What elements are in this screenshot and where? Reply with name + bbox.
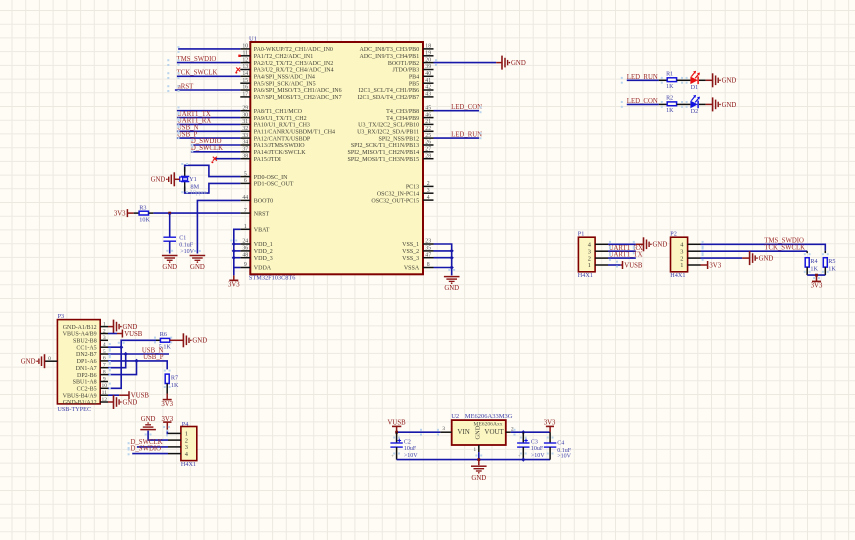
svg-text:33: 33 bbox=[242, 133, 248, 139]
resistor R3 reference bbox=[139, 205, 146, 212]
svg-text:ADC_IN9/T3_CH4/PB1: ADC_IN9/T3_CH4/PB1 bbox=[360, 54, 420, 60]
svg-text:JTDO/PB3: JTDO/PB3 bbox=[393, 68, 420, 74]
svg-text:DP2-B6: DP2-B6 bbox=[77, 373, 97, 379]
resistor R2 bbox=[667, 102, 676, 106]
svg-text:>10V: >10V bbox=[531, 453, 545, 459]
svg-text:1: 1 bbox=[473, 447, 476, 453]
svg-text:NRST: NRST bbox=[254, 211, 270, 217]
svg-text:SPI2_MOSI/T1_CH3N/PB15: SPI2_MOSI/T1_CH3N/PB15 bbox=[348, 157, 420, 163]
svg-text:SBU2-B8: SBU2-B8 bbox=[73, 339, 97, 345]
P3 pin 9 SBU1-A8 bbox=[73, 376, 108, 385]
U1 pin 37 PA14 bbox=[240, 147, 306, 157]
LED D2 bbox=[690, 95, 700, 108]
svg-text:1: 1 bbox=[244, 224, 247, 230]
junction at USB_P bbox=[134, 359, 138, 363]
capacitor C4 top lead bbox=[549, 432, 551, 443]
svg-text:VSSA: VSSA bbox=[404, 266, 420, 272]
net label UART1_RX at P1 bbox=[609, 245, 643, 252]
capacitor C3 plus sign bbox=[524, 439, 528, 443]
svg-text:7: 7 bbox=[103, 363, 106, 369]
svg-text:1K: 1K bbox=[810, 265, 818, 272]
resistor R4 value 1K bbox=[810, 265, 818, 272]
U1 pin 46 PB9 bbox=[386, 112, 433, 122]
wire R1 to D1 bbox=[677, 79, 691, 81]
svg-text:GND: GND bbox=[471, 475, 486, 482]
wire DN1 joins USB_N bbox=[108, 354, 126, 368]
net label TMS_SWDIO bbox=[177, 56, 217, 63]
svg-text:USB-TYPEC: USB-TYPEC bbox=[57, 406, 91, 413]
wire USB_N to PA11 bbox=[177, 130, 240, 132]
crystal Y1 reference text bbox=[189, 176, 197, 183]
ground at C1 bbox=[162, 256, 178, 272]
svg-text:STM32F103C8T6: STM32F103C8T6 bbox=[249, 275, 296, 282]
svg-text:0.1uF: 0.1uF bbox=[179, 242, 194, 248]
svg-text:PB5: PB5 bbox=[409, 81, 419, 87]
wire LED_RUN to R1 bbox=[627, 79, 667, 81]
ground at P3 pin1 bbox=[114, 320, 138, 334]
svg-text:T4_CH4/PB9: T4_CH4/PB9 bbox=[386, 116, 419, 122]
P3 pin 10 CC2-B5 bbox=[77, 383, 108, 392]
svg-text:10: 10 bbox=[242, 44, 248, 50]
U1 pin 17 PA7 bbox=[240, 92, 341, 102]
svg-text:C3: C3 bbox=[531, 439, 538, 445]
svg-text:43: 43 bbox=[425, 92, 431, 98]
svg-text:44: 44 bbox=[242, 195, 248, 201]
svg-text:VDD_3: VDD_3 bbox=[254, 256, 273, 262]
svg-text:C4: C4 bbox=[557, 440, 564, 446]
ground at P3 pin12 bbox=[114, 395, 138, 409]
connector P1 body H4X1 bbox=[578, 237, 595, 272]
svg-text:30: 30 bbox=[242, 112, 248, 118]
svg-text:PD0-OSC_IN: PD0-OSC_IN bbox=[254, 175, 288, 181]
svg-text:VOUT: VOUT bbox=[484, 428, 504, 436]
svg-text:3V3: 3V3 bbox=[811, 283, 823, 290]
wire D_SWCLK to PA14 bbox=[191, 151, 240, 153]
net label USB_P bbox=[177, 131, 198, 138]
P2 pin 2 bbox=[680, 255, 700, 262]
svg-text:SPI2_MISO/T1_CH2N/PB14: SPI2_MISO/T1_CH2N/PB14 bbox=[348, 150, 420, 156]
wire D_SWDIO to PA13 bbox=[191, 144, 240, 146]
capacitor C4 rating >10V bbox=[557, 453, 571, 459]
svg-text:PA8/T1_CH1/MCO: PA8/T1_CH1/MCO bbox=[254, 109, 303, 115]
U1 pin 26 PB13 bbox=[351, 140, 434, 150]
U1 pin 6 PD1-OSC_OUT bbox=[240, 178, 294, 188]
U1 pin 16 PA6 bbox=[240, 85, 341, 95]
resistor R5 bbox=[823, 258, 827, 267]
svg-text:VDDA: VDDA bbox=[254, 266, 272, 272]
U1 pin 43 PB7 bbox=[358, 92, 434, 102]
svg-text:U3_RX/I2C2_SDA/PB11: U3_RX/I2C2_SDA/PB11 bbox=[357, 130, 419, 136]
P4 pin 1 bbox=[168, 431, 188, 438]
svg-text:PC13: PC13 bbox=[406, 185, 419, 191]
power 3V3 at P2 pin1 bbox=[708, 261, 722, 269]
U2 internal label ME6206Axx bbox=[473, 422, 502, 428]
svg-text:CC1-A5: CC1-A5 bbox=[76, 345, 96, 351]
svg-text:R4: R4 bbox=[810, 258, 817, 265]
svg-text:34: 34 bbox=[242, 140, 248, 146]
svg-text:38: 38 bbox=[242, 153, 248, 159]
svg-text:H4X1: H4X1 bbox=[670, 272, 685, 279]
svg-text:ME6206A33M3G: ME6206A33M3G bbox=[465, 413, 513, 420]
wire UART1_RX from P1 pin3 bbox=[608, 250, 636, 252]
wire P3 pin2 to VUSB bbox=[108, 333, 122, 335]
svg-text:PA0-WKUP/T2_CH1/ADC_IN0: PA0-WKUP/T2_CH1/ADC_IN0 bbox=[254, 47, 333, 53]
junction VSS_3 bbox=[450, 256, 454, 260]
wire ground to crystal bbox=[174, 178, 179, 180]
U1 pin 4 OSC32_OUT-PC15 bbox=[371, 195, 433, 205]
wire R4 R5 bottoms to 3V3 bbox=[807, 267, 825, 275]
net label nRST bbox=[177, 83, 194, 90]
svg-text:>10V: >10V bbox=[404, 453, 418, 459]
junction VSSA bbox=[450, 265, 454, 269]
U1 pin 39 PB3 bbox=[393, 64, 434, 74]
svg-text:I2C1_SCL/T4_CH1/PB6: I2C1_SCL/T4_CH1/PB6 bbox=[359, 88, 420, 94]
svg-text:R7: R7 bbox=[171, 374, 178, 381]
U1 pin 15 PA5 bbox=[240, 78, 315, 88]
U1 pin 40 PB4 bbox=[409, 71, 434, 81]
svg-text:PA5/SPI_SCK/ADC_IN5: PA5/SPI_SCK/ADC_IN5 bbox=[254, 81, 316, 87]
P3 pin 6 DP1-A6 bbox=[77, 356, 108, 365]
wire UART1_TX to PA9 bbox=[177, 117, 240, 119]
svg-text:OSC32_IN-PC14: OSC32_IN-PC14 bbox=[377, 191, 419, 197]
capacitor C2 value 10uF bbox=[404, 446, 417, 452]
power VUSB at P1 pin1 bbox=[623, 261, 643, 269]
P3 pin 4 CC1-A5 bbox=[76, 342, 108, 351]
connector P4 footprint label bbox=[181, 461, 196, 468]
svg-text:PA9/U1_TX/T1_CH2: PA9/U1_TX/T1_CH2 bbox=[254, 116, 307, 122]
U1 pin 36 VDD_2 bbox=[240, 246, 272, 256]
svg-text:11: 11 bbox=[102, 390, 108, 396]
svg-text:PA6/SPI_MISO/T3_CH1/ADC_IN6: PA6/SPI_MISO/T3_CH1/ADC_IN6 bbox=[254, 88, 342, 94]
svg-text:3: 3 bbox=[442, 426, 445, 432]
P4 pin 2 bbox=[168, 437, 188, 444]
power 3V3 below R4 R5 bbox=[811, 281, 823, 289]
svg-text:I2C1_SDA/T4_CH2/PB7: I2C1_SDA/T4_CH2/PB7 bbox=[358, 95, 420, 101]
P1 pin 3 bbox=[588, 248, 608, 255]
svg-text:42: 42 bbox=[425, 85, 431, 91]
svg-text:1: 1 bbox=[103, 321, 106, 327]
U1 pin 3 OSC32_IN-PC14 bbox=[377, 188, 434, 198]
svg-text:20: 20 bbox=[425, 57, 431, 63]
connector P1 reference bbox=[578, 230, 585, 237]
svg-text:C1: C1 bbox=[179, 236, 186, 242]
net label UART1_TX at P1 bbox=[609, 252, 643, 259]
svg-text:22: 22 bbox=[425, 126, 431, 132]
svg-text:1K: 1K bbox=[171, 382, 179, 389]
junction VDD_3 bbox=[232, 256, 236, 260]
svg-text:25: 25 bbox=[425, 133, 431, 139]
svg-text:VUSB: VUSB bbox=[624, 262, 643, 269]
svg-text:VBUS-B4/A9: VBUS-B4/A9 bbox=[63, 393, 97, 399]
svg-text:GND: GND bbox=[475, 425, 482, 439]
svg-text:PA13/JTMS/SWDIO: PA13/JTMS/SWDIO bbox=[254, 143, 305, 149]
U1 pin 32 PA11 bbox=[240, 126, 335, 136]
U1 pin 24 VDD_1 bbox=[240, 239, 272, 249]
P1 pin 4 bbox=[588, 242, 608, 249]
svg-text:D_SWDIO: D_SWDIO bbox=[131, 446, 162, 453]
U1 pin 12 PA2 bbox=[240, 57, 333, 67]
svg-text:1K: 1K bbox=[666, 108, 674, 114]
resistor R6 value 5.1K bbox=[159, 344, 172, 351]
capacitor C2 plus sign bbox=[398, 439, 402, 443]
resistor R7 bbox=[165, 374, 169, 383]
svg-text:BOOT1/PB2: BOOT1/PB2 bbox=[388, 61, 419, 67]
resistor R7 reference bbox=[171, 374, 178, 381]
net label TCK_SWCLK at P2 bbox=[764, 244, 805, 251]
svg-text:4: 4 bbox=[427, 195, 430, 201]
svg-text:PA12/CANTX/USBDP: PA12/CANTX/USBDP bbox=[254, 136, 311, 142]
power 3V3 below R7 bbox=[161, 400, 173, 408]
resistor R5 reference bbox=[828, 258, 835, 265]
ground below U2 bbox=[471, 466, 487, 482]
wire P2 pin1 to 3V3 bbox=[701, 264, 708, 266]
svg-text:D2: D2 bbox=[691, 109, 698, 115]
power 3V3 below VDD bus bbox=[233, 275, 235, 280]
wire C3 to rail bbox=[522, 447, 524, 460]
U1 pin 5 PD0-OSC_IN bbox=[240, 171, 288, 181]
resistor R7 value 1K bbox=[171, 382, 179, 389]
wire CC1 CC2 to R6 bbox=[108, 340, 161, 388]
wire rail to ground symbol bbox=[478, 460, 480, 466]
wire P1 pin4 to ground bbox=[608, 243, 644, 245]
U1 pin 7 NRST bbox=[240, 208, 269, 218]
P3 pin 2 VBUS-A4/B9 bbox=[63, 328, 108, 337]
unconnected pin marker pin 13 bbox=[236, 68, 240, 72]
junction VSS_2 bbox=[450, 249, 454, 253]
U1 pin 10 PA0-WKUP bbox=[240, 44, 333, 54]
svg-text:GND: GND bbox=[653, 242, 668, 249]
capacitor C3 bbox=[517, 443, 529, 447]
LED D1 bbox=[690, 71, 700, 84]
svg-text:3: 3 bbox=[427, 188, 430, 194]
junction VDD_1 bbox=[232, 242, 236, 246]
net label USB_N bbox=[177, 125, 199, 132]
svg-text:PB4: PB4 bbox=[409, 75, 419, 81]
svg-text:P2: P2 bbox=[670, 230, 677, 237]
svg-text:GND: GND bbox=[511, 60, 526, 67]
P3 pin 7 DN1-A7 bbox=[76, 363, 108, 372]
capacitor C1 value 0.1uF bbox=[179, 242, 194, 248]
wire BOOT0 to ground bbox=[197, 200, 240, 253]
wire crystal bottom loop bbox=[185, 183, 241, 193]
U1 pin 34 PA13 bbox=[240, 140, 305, 150]
net label UART1_RX bbox=[177, 118, 211, 125]
wire P3 pin11 to VUSB bbox=[108, 394, 129, 396]
svg-text:PA10/U1_RX/T1_CH3: PA10/U1_RX/T1_CH3 bbox=[254, 123, 310, 129]
svg-text:41: 41 bbox=[425, 78, 431, 84]
svg-text:47: 47 bbox=[425, 252, 431, 258]
wire R2 to D2 bbox=[677, 103, 691, 105]
svg-text:GND: GND bbox=[162, 264, 177, 271]
svg-text:+: + bbox=[391, 455, 394, 460]
svg-text:45: 45 bbox=[425, 105, 431, 111]
svg-text:48: 48 bbox=[242, 252, 248, 258]
U1 pin 19 PB1 bbox=[360, 51, 434, 61]
capacitor C1 bbox=[163, 237, 176, 241]
U1 part number label bbox=[249, 275, 296, 282]
power VUSB at P3 pin11 bbox=[129, 391, 149, 399]
svg-text:PA3/U2_RX/T2_CH4/ADC_IN4: PA3/U2_RX/T2_CH4/ADC_IN4 bbox=[254, 68, 334, 74]
net label TMS_SWDIO at P2 bbox=[764, 237, 804, 244]
wire U2 VOUT to 3V3 bbox=[511, 431, 550, 433]
wire C4 to rail bbox=[549, 447, 551, 460]
P4 pin 3 bbox=[168, 444, 188, 451]
U1 pin 25 PB12 bbox=[379, 133, 434, 143]
svg-text:SPI2_NSS/PB12: SPI2_NSS/PB12 bbox=[379, 136, 420, 142]
power VUSB at P3 pin2 bbox=[122, 330, 142, 338]
net label D_SWDIO bbox=[191, 138, 222, 145]
svg-text:SBU1-A8: SBU1-A8 bbox=[73, 380, 97, 386]
connector P3 body USB-TYPEC bbox=[57, 320, 100, 404]
svg-text:GND: GND bbox=[759, 256, 774, 263]
svg-text:12: 12 bbox=[102, 397, 108, 403]
U2 pin name VOUT bbox=[484, 428, 504, 436]
svg-text:R3: R3 bbox=[139, 205, 146, 212]
svg-text:36: 36 bbox=[242, 246, 248, 252]
svg-text:SPI2_SCK/T1_CH1N/PB13: SPI2_SCK/T1_CH1N/PB13 bbox=[351, 143, 419, 149]
wire UART1_TX from P1 pin2 bbox=[608, 257, 636, 259]
svg-text:13: 13 bbox=[242, 64, 248, 70]
wire crystal top loop bbox=[185, 165, 241, 176]
svg-text:H4X1: H4X1 bbox=[181, 461, 196, 468]
crystal Y1 bbox=[180, 167, 190, 192]
svg-text:GND: GND bbox=[444, 285, 459, 292]
svg-text:DN1-A7: DN1-A7 bbox=[76, 366, 97, 372]
crystal Y1 tolerance 10ppm bbox=[190, 190, 207, 196]
net label D_SWDIO at P4 bbox=[131, 446, 162, 453]
net label USB_N at P3 bbox=[142, 347, 164, 354]
svg-text:14: 14 bbox=[242, 71, 248, 77]
svg-text:2: 2 bbox=[427, 181, 430, 187]
net label UART1_TX bbox=[177, 111, 211, 118]
svg-text:29: 29 bbox=[242, 105, 248, 111]
svg-text:GND: GND bbox=[722, 78, 737, 85]
U1 pin 28 PB15 bbox=[348, 153, 434, 163]
U1 pin 20 PB2 bbox=[388, 57, 434, 67]
power 3V3 at R3 bbox=[114, 209, 128, 217]
U1 pin 13 PA3 bbox=[240, 64, 333, 74]
svg-text:>10V: >10V bbox=[557, 453, 571, 459]
U1 pin 35 VSS_2 bbox=[402, 246, 433, 256]
ground at BOOT0 bbox=[190, 256, 206, 272]
LED D2 reference bbox=[691, 109, 698, 115]
svg-text:0: 0 bbox=[48, 356, 51, 362]
P3 pin 8 DP2-B6 bbox=[77, 369, 108, 378]
wire PA8 bbox=[177, 110, 240, 112]
svg-text:3V3: 3V3 bbox=[161, 401, 173, 408]
svg-text:GND: GND bbox=[192, 338, 207, 345]
U1 pin 27 PB14 bbox=[348, 147, 434, 157]
svg-text:PA1/T2_CH2/ADC_IN1: PA1/T2_CH2/ADC_IN1 bbox=[254, 54, 313, 60]
capacitor C4 bbox=[544, 443, 556, 447]
svg-text:3V3: 3V3 bbox=[709, 262, 721, 269]
U1 pin 44 BOOT0 bbox=[240, 195, 273, 205]
svg-text:PD1-OSC_OUT: PD1-OSC_OUT bbox=[254, 182, 294, 188]
capacitor C4 reference bbox=[557, 440, 564, 446]
svg-text:PA4/SPI_NSS/ADC_IN4: PA4/SPI_NSS/ADC_IN4 bbox=[254, 75, 315, 81]
P2 pin 1 bbox=[680, 262, 700, 269]
svg-text:>10V: >10V bbox=[180, 249, 194, 255]
svg-text:21: 21 bbox=[425, 119, 431, 125]
wire stub PA15 bbox=[214, 158, 240, 160]
wire ground rail bbox=[397, 459, 550, 461]
svg-text:P1: P1 bbox=[578, 230, 585, 237]
svg-text:DN2-B7: DN2-B7 bbox=[76, 352, 97, 358]
svg-text:11: 11 bbox=[243, 51, 249, 57]
svg-text:18: 18 bbox=[425, 44, 431, 50]
U1 pin 45 PB8 bbox=[386, 105, 433, 115]
wire USB_N from DN2 bbox=[108, 353, 169, 355]
U1 pin 22 PB11 bbox=[357, 126, 433, 136]
U2 pin 3 VIN stub bbox=[440, 426, 452, 432]
svg-text:26: 26 bbox=[425, 140, 431, 146]
resistor R1 bbox=[667, 78, 676, 82]
wire DP2 joins USB_P bbox=[108, 361, 137, 375]
U1 pin 1 VBAT bbox=[240, 224, 270, 234]
U1 pin 21 PB10 bbox=[358, 119, 433, 129]
svg-text:23: 23 bbox=[425, 239, 431, 245]
svg-text:19: 19 bbox=[425, 51, 431, 57]
junction U2 GND rail bbox=[477, 458, 480, 461]
resistor R2 reference bbox=[666, 96, 673, 102]
unconnected wire end marker PA15 bbox=[213, 157, 217, 161]
wire P2 pin2 to ground bbox=[701, 257, 750, 259]
wire U2 GND pin to rail bbox=[478, 452, 480, 460]
svg-text:5: 5 bbox=[244, 171, 247, 177]
wire LED_CON to R2 bbox=[627, 103, 667, 105]
P3 shield pin 0 bbox=[45, 356, 58, 362]
svg-text:OSC32_OUT-PC15: OSC32_OUT-PC15 bbox=[371, 198, 419, 204]
capacitor C2 reference bbox=[404, 439, 411, 445]
regulator U2 body bbox=[452, 420, 506, 445]
wire R3 to NRST bbox=[149, 212, 241, 214]
net label D_SWCLK at P4 bbox=[131, 439, 163, 446]
svg-text:27: 27 bbox=[425, 147, 431, 153]
P3 pin 1 GND-A1/B12 bbox=[63, 321, 108, 330]
svg-text:D1: D1 bbox=[691, 85, 698, 91]
svg-text:10uF: 10uF bbox=[404, 446, 417, 452]
svg-text:8: 8 bbox=[427, 262, 430, 268]
capacitor C3 top lead bbox=[522, 432, 524, 443]
wire D_SWCLK from P4 pin3 bbox=[137, 446, 168, 448]
P2 pin 4 bbox=[680, 242, 700, 249]
U1 pin 42 PB6 bbox=[359, 85, 434, 95]
U1 pin 47 VSS_3 bbox=[402, 252, 433, 262]
svg-text:1K: 1K bbox=[828, 265, 836, 272]
net label LED_CON bbox=[627, 98, 658, 105]
U2 pin name GND rotated bbox=[475, 425, 482, 439]
wire UART1_RX to PA10 bbox=[177, 123, 240, 125]
wire R6 to ground bbox=[170, 339, 184, 341]
connector P3 reference bbox=[58, 313, 65, 320]
connector P2 reference bbox=[670, 230, 677, 237]
U1 pin 9 VDDA bbox=[240, 262, 271, 272]
resistor R6 bbox=[160, 338, 169, 342]
svg-text:6: 6 bbox=[103, 356, 106, 362]
U1 pin 14 PA4 bbox=[240, 71, 315, 81]
svg-text:PA14/JTCK/SWCLK: PA14/JTCK/SWCLK bbox=[254, 150, 306, 156]
capacitor C2 top lead bbox=[396, 432, 398, 443]
svg-text:VUSB: VUSB bbox=[124, 331, 143, 338]
ground below VSS bus bbox=[444, 277, 460, 293]
U1 pin 8 VSSA bbox=[404, 262, 434, 272]
wire LED_CON from PB8 bbox=[434, 110, 480, 112]
svg-text:17: 17 bbox=[242, 92, 248, 98]
net label TCK_SWCLK bbox=[177, 70, 218, 77]
wire P3 pin12 to ground bbox=[108, 401, 114, 403]
svg-text:24: 24 bbox=[242, 239, 248, 245]
wire R7 to 3V3 bbox=[166, 384, 168, 400]
